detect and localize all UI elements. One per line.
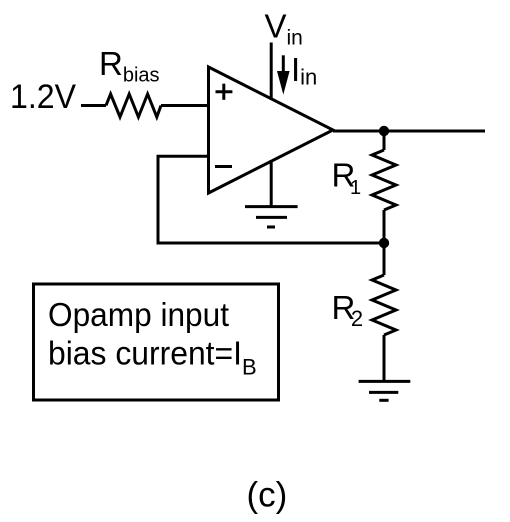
output wire bbox=[333, 130, 485, 133]
annotation box bbox=[34, 284, 279, 400]
svg-text:Iin: Iin bbox=[291, 51, 317, 89]
svg-text:R2: R2 bbox=[332, 289, 364, 331]
node A: op-amp output junction bbox=[379, 126, 389, 136]
svg-text:Opamp input: Opamp input bbox=[48, 296, 229, 333]
ground symbol below R2 bbox=[359, 381, 411, 400]
resistor Rbias bbox=[106, 94, 161, 117]
wire Rbias to op-amp noninverting input bbox=[161, 104, 209, 107]
wire inverting input feedback path to node B bbox=[158, 156, 384, 243]
svg-text:Vin: Vin bbox=[265, 7, 303, 49]
wire Vin input to op-amp top edge bbox=[270, 43, 273, 101]
svg-text:1.2V: 1.2V bbox=[10, 78, 76, 116]
op-amp plus input marker bbox=[216, 84, 233, 100]
wire from 1.2V source to Rbias bbox=[81, 104, 106, 107]
svg-text:R1: R1 bbox=[332, 156, 362, 199]
svg-text:Rbias: Rbias bbox=[99, 45, 160, 87]
svg-text:(c): (c) bbox=[247, 476, 288, 515]
resistor R2 bbox=[372, 243, 396, 381]
svg-text:B: B bbox=[242, 354, 257, 379]
ground symbol under op-amp bbox=[245, 160, 298, 227]
node B: R1-R2 feedback junction bbox=[379, 238, 389, 248]
resistor R1 bbox=[372, 131, 396, 243]
op-amp U1 bbox=[209, 67, 334, 193]
svg-text:bias current=I: bias current=I bbox=[48, 334, 242, 371]
op-amp minus input marker bbox=[215, 165, 232, 168]
current arrow Iin bbox=[277, 55, 290, 94]
